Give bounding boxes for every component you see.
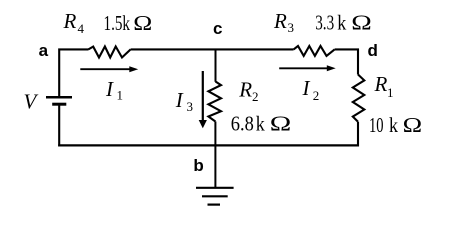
label I3 (175, 88, 193, 114)
wire right vertical below R1 (357, 122, 359, 147)
svg-text:R: R (273, 9, 287, 33)
current arrow I3 (199, 71, 207, 128)
value 10 k ohm (369, 113, 422, 137)
svg-text:2: 2 (313, 88, 320, 103)
svg-text:R: R (238, 77, 252, 101)
label R4 (63, 9, 85, 36)
svg-text:c: c (213, 19, 222, 38)
svg-text:3.3: 3.3 (315, 11, 334, 35)
resistor R1 zigzag (353, 75, 365, 122)
svg-text:Ω: Ω (270, 111, 292, 135)
svg-text:k: k (337, 11, 346, 35)
wire top middle segment R4 to R3 (through node c) (131, 48, 294, 50)
svg-text:k: k (389, 113, 398, 137)
svg-text:b: b (193, 156, 203, 175)
label R3 (273, 9, 294, 35)
svg-text:Ω: Ω (403, 113, 423, 137)
value 3.3 k ohm (315, 11, 372, 35)
svg-text:Ω: Ω (351, 11, 372, 35)
svg-text:3: 3 (187, 99, 194, 114)
svg-text:k: k (256, 111, 265, 135)
value 6.8 k ohm (231, 111, 291, 135)
resistor R4 zigzag (88, 47, 130, 58)
current arrow I1 (80, 66, 138, 72)
label I1 (105, 77, 123, 102)
label R1 (374, 72, 394, 100)
wire top-left segment a to R4 with corner down to battery (59, 49, 88, 96)
wire middle vertical R2 to node b to ground (214, 122, 216, 188)
resistor R3 zigzag (294, 46, 335, 56)
wire bottom horizontal (58, 144, 359, 146)
ground (196, 188, 234, 205)
svg-text:3: 3 (288, 20, 295, 35)
wire left vertical below battery (58, 104, 60, 146)
svg-text:R: R (63, 9, 77, 33)
value 1.5 k ohm (104, 11, 153, 35)
wire top-right segment R3 to corner d down to R1 (335, 49, 358, 74)
svg-text:V: V (24, 89, 39, 113)
resistor R2 zigzag (208, 82, 221, 122)
svg-text:1: 1 (117, 87, 124, 102)
svg-text:1.5k: 1.5k (104, 11, 131, 35)
label R2 (238, 77, 258, 104)
svg-text:d: d (368, 41, 378, 60)
svg-text:I: I (302, 76, 311, 100)
battery V plates (46, 97, 72, 104)
svg-text:2: 2 (252, 89, 259, 104)
svg-text:10: 10 (369, 113, 384, 137)
svg-text:I: I (105, 77, 114, 101)
wire middle vertical node c to R2 (215, 49, 217, 82)
svg-text:1: 1 (387, 85, 394, 100)
svg-text:R: R (374, 72, 388, 96)
svg-text:4: 4 (78, 21, 85, 36)
svg-text:a: a (39, 41, 49, 60)
current arrow I2 (279, 65, 336, 71)
label I2 (302, 76, 320, 103)
svg-text:I: I (175, 88, 184, 112)
svg-text:Ω: Ω (133, 11, 152, 35)
svg-text:6.8: 6.8 (231, 111, 254, 135)
